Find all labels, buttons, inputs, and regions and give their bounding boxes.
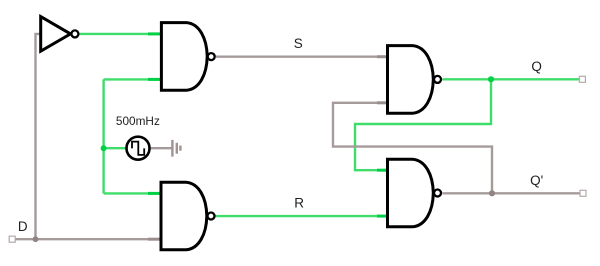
svg-text:S: S — [294, 36, 303, 51]
NAND gate U2 (clocked S gate) — [161, 23, 214, 91]
svg-text:500mHz: 500mHz — [116, 114, 160, 128]
wire: NAND2 top input stub (logic 1) — [148, 192, 161, 195]
wire: inverter output to NAND1 top input (logic 1) — [79, 33, 161, 35]
svg-text:Q': Q' — [530, 173, 543, 188]
wire: clock net to NAND1 bottom input — [104, 78, 161, 80]
wire: D rail vertical up to inverter input — [36, 34, 41, 239]
wire: clock net to NAND2 top input — [104, 192, 161, 194]
wire: NAND1 top input stub (logic 1) — [148, 32, 161, 35]
junction: clock net dot — [101, 145, 107, 151]
junction: D input dot — [33, 236, 39, 242]
wire: node Q-bar feedback to NAND3 bottom input — [333, 103, 492, 194]
wire: NAND2 bottom input stub (logic 0) — [148, 238, 161, 241]
post: Q output terminal — [579, 76, 585, 82]
wire: NAND4 bottom input stub (logic 1) — [377, 215, 388, 218]
post: D input terminal — [9, 236, 15, 242]
svg-text:Q: Q — [531, 59, 542, 74]
wire: NAND3 bottom input stub (logic 0) — [377, 101, 388, 104]
wire: clock net vertical — [102, 79, 104, 193]
wire: node Q, NAND3 output to output post — [442, 78, 579, 80]
NAND gate U4 (latch Q gate) — [388, 46, 442, 114]
svg-text:R: R — [294, 195, 304, 210]
clock source V1 (square wave) — [127, 137, 150, 160]
junction: node Q-bar dot — [489, 190, 495, 196]
wire: D input horizontal to NAND2 bottom input — [15, 238, 161, 240]
wire: NAND3 top input stub (logic 0) — [377, 55, 388, 58]
wire: node Q-bar, NAND4 output to output post — [442, 192, 580, 194]
ground — [172, 140, 180, 157]
NAND gate U5 (latch Q-bar gate) — [388, 159, 442, 227]
wire: NAND1 bottom input stub (logic 1) — [148, 78, 161, 81]
wire: node S, NAND1 output to NAND3 top input — [216, 56, 388, 58]
wire: clock source right lead to ground — [149, 147, 172, 149]
wire: NAND4 top input stub (logic 1) — [377, 169, 388, 172]
wire: node R, NAND2 output to NAND4 bottom input — [216, 215, 388, 217]
junction: node Q dot — [488, 76, 494, 82]
NAND gate U3 (clocked R gate) — [161, 182, 215, 250]
svg-text:D: D — [18, 219, 28, 234]
inverter U1 (NOT gate) — [41, 17, 79, 52]
wire: clock source left lead — [104, 147, 127, 149]
wire: node Q feedback to NAND4 top input — [355, 79, 491, 170]
post: Q-bar output terminal — [580, 190, 586, 196]
